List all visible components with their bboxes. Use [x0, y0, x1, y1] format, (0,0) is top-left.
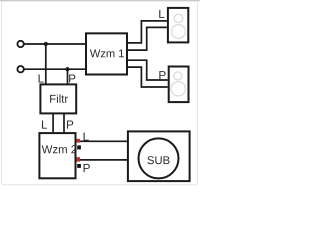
wire input P to Wzm 1	[24, 68, 86, 70]
subwoofer SUB box	[128, 131, 190, 181]
amplifier Wzm 2 box	[39, 133, 76, 178]
wire Wzm 1 out 1 to speaker L plus	[127, 21, 167, 43]
input jack L (top-left circle)	[17, 41, 23, 47]
terminal P minus black on Wzm 2	[77, 164, 81, 168]
label P at Wzm 2 output	[84, 164, 90, 172]
label L below Filtr	[42, 121, 47, 129]
wire Filtr out L to Wzm 2	[52, 113, 54, 133]
wire Wzm 2 P to SUB	[80, 159, 128, 161]
wire Wzm 1 out 2 to speaker L minus	[127, 27, 167, 50]
wire Filtr out P to Wzm 2	[63, 113, 65, 133]
wire Wzm 2 L to SUB	[80, 140, 128, 142]
junction node P	[65, 67, 69, 71]
input jack P (bottom-left circle)	[17, 66, 23, 72]
junction node L	[44, 42, 48, 46]
wire Wzm 1 out 3 to speaker P plus	[127, 60, 168, 80]
terminal L minus black on Wzm 2	[77, 145, 81, 149]
label P speaker	[159, 71, 165, 79]
speaker P box	[169, 67, 189, 103]
label L speaker	[159, 10, 164, 18]
wire input L to Wzm 1	[24, 43, 86, 45]
wire junction P down to Filtr	[67, 69, 69, 84]
border frame	[0, 1, 200, 185]
label P above Filtr	[69, 74, 75, 82]
wire junction L down to Filtr	[45, 44, 47, 84]
filter Filtr box	[40, 84, 76, 113]
wire Wzm 1 out 4 to speaker P minus	[127, 67, 168, 87]
label L at Wzm 2 output	[84, 133, 89, 141]
terminal L plus red on Wzm 2	[76, 139, 80, 143]
speaker L box	[168, 8, 188, 43]
terminal P plus red on Wzm 2	[76, 157, 80, 161]
amplifier Wzm 1 box	[86, 33, 127, 74]
label L above Filtr	[39, 74, 44, 82]
label P below Filtr	[67, 121, 73, 129]
